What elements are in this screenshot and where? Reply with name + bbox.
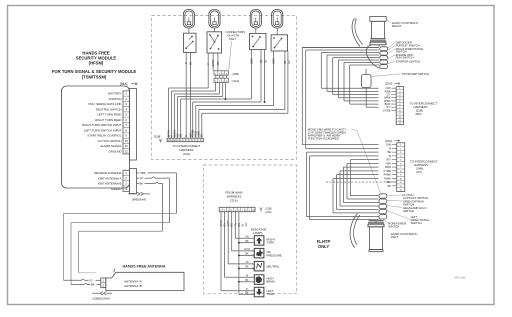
svg-text:BATTERY: BATTERY bbox=[108, 92, 121, 96]
far left tall wires bbox=[302, 47, 378, 49]
right housing bbox=[366, 45, 379, 68]
wire box2 w1 bbox=[207, 53, 209, 88]
svg-text:SWITCH: SWITCH bbox=[411, 221, 422, 225]
svg-text:[21A]: [21A] bbox=[230, 199, 237, 203]
junction bbox=[224, 98, 226, 100]
svg-text:ALARM SIGNAL: ALARM SIGNAL bbox=[100, 144, 122, 148]
clutch lever bbox=[350, 214, 357, 248]
svg-text:O/BE: O/BE bbox=[250, 58, 253, 64]
lamp bulb front right turn bbox=[272, 10, 283, 29]
svg-text:[21A]: [21A] bbox=[266, 211, 272, 214]
svg-text:GY: GY bbox=[288, 60, 291, 64]
wire box3 w1 bbox=[250, 50, 252, 99]
wire BE direct to pin5 bbox=[190, 52, 192, 138]
wire Y/BK receive antenna bbox=[137, 172, 140, 174]
wire GY xmit antenna A bbox=[137, 177, 140, 179]
wire box4 w1 bbox=[273, 51, 275, 106]
FLTR 4-pin connector strip A bbox=[214, 78, 228, 82]
svg-text:BE: BE bbox=[181, 133, 183, 137]
svg-text:RIGHT TURN FEED: RIGHT TURN FEED bbox=[95, 118, 121, 122]
svg-text:ONLY: ONLY bbox=[318, 244, 329, 249]
svg-text:↓ [31B]: ↓ [31B] bbox=[231, 72, 240, 76]
svg-text:BE: BE bbox=[190, 61, 193, 65]
svg-text:RIGHT TURN SWITCH INPUT: RIGHT TURN SWITCH INPUT bbox=[82, 123, 122, 127]
lamp socket 4 bbox=[271, 35, 287, 51]
svg-text:START RELAY CONTROL: START RELAY CONTROL bbox=[87, 134, 121, 138]
svg-text:BK: BK bbox=[245, 254, 249, 256]
antenna wire routing loop bbox=[64, 213, 177, 215]
svg-text:0457 wdb: 0457 wdb bbox=[454, 276, 466, 280]
dashed alt wire bbox=[326, 181, 397, 183]
svg-text:BE/GY: BE/GY bbox=[169, 129, 171, 136]
svg-text:O/W: O/W bbox=[386, 144, 392, 147]
svg-text:Y/BK: Y/BK bbox=[385, 162, 391, 165]
svg-text:LEFT TURN SWITCH INPUT: LEFT TURN SWITCH INPUT bbox=[84, 128, 122, 132]
connector 22A 12-pin bbox=[396, 87, 403, 125]
svg-text:TN/BK: TN/BK bbox=[384, 177, 392, 180]
svg-text:BK: BK bbox=[245, 293, 249, 295]
svg-text:GY/O: GY/O bbox=[244, 249, 250, 251]
wire V direct to pin6 bbox=[185, 52, 187, 138]
svg-text:PK/BK: PK/BK bbox=[384, 174, 392, 177]
mate symbol bbox=[160, 140, 162, 143]
svg-text:GY/BE: GY/BE bbox=[212, 59, 215, 67]
icon neutral bbox=[257, 263, 262, 268]
HFSM module box bbox=[62, 86, 130, 188]
indicator wiring verticals bbox=[220, 212, 222, 291]
svg-text:GY: GY bbox=[89, 278, 93, 282]
shield wire faded bbox=[79, 272, 97, 274]
svg-text:W/Y: W/Y bbox=[386, 159, 391, 162]
svg-text:ANTENNA 'A': ANTENNA 'A' bbox=[124, 279, 143, 283]
svg-text:V/BN: V/BN bbox=[199, 131, 201, 137]
svg-text:SHIELD: SHIELD bbox=[111, 187, 121, 191]
svg-text:TURN: TURN bbox=[267, 292, 275, 296]
left callout leaders bbox=[387, 194, 402, 197]
svg-text:GROUND: GROUND bbox=[109, 149, 122, 153]
svg-text:O: O bbox=[186, 135, 188, 137]
left control pods bbox=[379, 194, 387, 198]
strip link bbox=[215, 75, 217, 78]
icon high beam bbox=[256, 276, 262, 283]
svg-text:XMIT ANTENNA B: XMIT ANTENNA B bbox=[98, 182, 122, 186]
svg-text:ANTENNA 'B': ANTENNA 'B' bbox=[124, 284, 143, 288]
svg-text:NEUTRAL: NEUTRAL bbox=[267, 265, 280, 269]
brake lever bbox=[352, 19, 360, 47]
lamp bulb front right turn FLTR bbox=[250, 10, 261, 29]
svg-text:BK: BK bbox=[265, 59, 268, 63]
svg-text:[64A]: [64A] bbox=[120, 82, 128, 86]
svg-text:BE: BE bbox=[284, 60, 287, 64]
indicator lamp HIGH BEAM bbox=[254, 275, 264, 285]
icon right turn arrow bbox=[256, 237, 262, 244]
HFSM 12-pin connector strip bbox=[123, 91, 130, 154]
svg-text:TURN: TURN bbox=[267, 241, 275, 245]
svg-text:LEFT: LEFT bbox=[391, 235, 399, 239]
ground bus vertical bbox=[238, 212, 240, 295]
svg-text:[209B] [209A]: [209B] [209A] bbox=[93, 297, 110, 301]
svg-text:GY/BN: GY/BN bbox=[193, 129, 195, 136]
svg-text:PRESSURE: PRESSURE bbox=[267, 253, 283, 257]
svg-text:BK: BK bbox=[202, 133, 204, 137]
svg-text:[24A]: [24A] bbox=[385, 139, 392, 143]
antenna 2-pin connector bbox=[101, 278, 106, 288]
svg-text:(GY): (GY) bbox=[416, 170, 422, 174]
svg-text:BK: BK bbox=[245, 267, 249, 269]
wire box4 w2 bbox=[284, 51, 286, 110]
svg-text:GN: GN bbox=[244, 222, 248, 226]
connector 24A 13-pin bbox=[397, 143, 405, 192]
stoplamp switch bbox=[362, 75, 372, 88]
note callout bbox=[352, 129, 381, 193]
svg-text:(BN): (BN) bbox=[416, 112, 422, 116]
wire BK to antenna bbox=[71, 284, 84, 286]
wire box3 w3 bbox=[264, 50, 266, 102]
svg-text:BK: BK bbox=[140, 181, 144, 185]
svg-text:FUNCTION IS DESIRED: FUNCTION IS DESIRED bbox=[308, 137, 339, 141]
svg-text:STOPLAMP SWITCH: STOPLAMP SWITCH bbox=[402, 72, 429, 76]
FLTR 4-pin connector strip B bbox=[214, 71, 228, 75]
pins 3,4 wires to horn bbox=[307, 151, 379, 153]
svg-text:CLUTCH SWITCH: CLUTCH SWITCH bbox=[98, 139, 122, 143]
hand controls right: grip bbox=[370, 17, 386, 22]
svg-text:ONLY: ONLY bbox=[229, 37, 237, 41]
left grip bbox=[369, 220, 384, 222]
indicator lamp OIL PRESSURE bbox=[254, 248, 264, 258]
svg-text:BK: BK bbox=[245, 241, 249, 243]
icon left turn arrow bbox=[256, 289, 262, 296]
wire box4 w3 bbox=[287, 51, 289, 113]
svg-text:GY: GY bbox=[140, 176, 144, 180]
svg-text:TN: TN bbox=[245, 262, 248, 264]
svg-text:BK: BK bbox=[388, 185, 392, 188]
lamp socket 1 bbox=[184, 33, 197, 52]
dashed boundary bottom-center box bbox=[203, 165, 296, 294]
svg-text:[22A]: [22A] bbox=[385, 82, 392, 86]
open terminals bbox=[252, 250, 254, 252]
svg-text:BN/GY: BN/GY bbox=[175, 129, 177, 137]
svg-text:LEFT TURN FEED: LEFT TURN FEED bbox=[97, 113, 121, 117]
icon oil pressure bbox=[256, 249, 263, 256]
right switch pods bbox=[380, 47, 388, 51]
svg-text:[31B]: [31B] bbox=[154, 135, 161, 139]
connector symbol [209B][209A] bbox=[92, 292, 100, 294]
lamp to socket stems bbox=[188, 28, 190, 33]
svg-text:XMIT ANTENNA A: XMIT ANTENNA A bbox=[98, 176, 122, 180]
right control wire bundle bbox=[302, 47, 379, 49]
svg-text:VSS / SERIAL DATA LINK: VSS / SERIAL DATA LINK bbox=[88, 102, 122, 106]
svg-text:BE: BE bbox=[260, 59, 263, 63]
svg-text:O/GN: O/GN bbox=[196, 131, 198, 137]
svg-text:R: R bbox=[389, 147, 391, 150]
svg-text:(HFSM): (HFSM) bbox=[89, 61, 104, 66]
svg-text:Y/BK: Y/BK bbox=[140, 171, 146, 175]
wire box3 w2 bbox=[260, 50, 262, 102]
svg-text:BE: BE bbox=[217, 61, 220, 65]
svg-text:SWITCH: SWITCH bbox=[388, 225, 399, 229]
TO INTERCONNECT HARNESS 12-pin connector bbox=[167, 138, 203, 142]
callout leaders right pods bbox=[388, 42, 395, 48]
strip A output wires bbox=[215, 83, 217, 91]
lamp socket 3 bbox=[250, 33, 267, 49]
wire GY to antenna bbox=[64, 279, 82, 281]
svg-text:↑ [31A]: ↑ [31A] bbox=[231, 79, 240, 83]
connector symbol [64B][64A] bbox=[128, 193, 137, 195]
svg-text:BE: BE bbox=[388, 151, 392, 154]
indicator lamp LEFT TURN bbox=[254, 287, 264, 297]
svg-text:BK/R: BK/R bbox=[385, 166, 391, 169]
indicator lamp NEUTRAL bbox=[254, 261, 264, 271]
svg-text:LAMPS: LAMPS bbox=[253, 231, 263, 235]
svg-text:[64B] [64A]: [64B] [64A] bbox=[132, 197, 146, 201]
lamp bulb front left turn bbox=[183, 10, 194, 29]
svg-text:GY/BE: GY/BE bbox=[383, 109, 391, 112]
svg-text:RECEIVE ANTENNA: RECEIVE ANTENNA bbox=[94, 171, 121, 175]
svg-text:FOR TURN SIGNAL & SECURITY MOD: FOR TURN SIGNAL & SECURITY MODULE bbox=[52, 69, 137, 74]
wire BK xmit antenna B bbox=[137, 182, 140, 184]
svg-text:SWITCH: SWITCH bbox=[403, 209, 414, 213]
10-pin main harness connector bbox=[219, 207, 255, 211]
svg-text:GY/BE: GY/BE bbox=[383, 170, 391, 173]
svg-text:Y/BK: Y/BK bbox=[385, 181, 391, 184]
svg-text:GY: GY bbox=[178, 133, 180, 137]
svg-text:STARTER SWITCH: STARTER SWITCH bbox=[396, 60, 421, 64]
indicator lamp RIGHT TURN bbox=[254, 236, 264, 246]
HFSM 4-pin antenna connector strip bbox=[123, 170, 130, 191]
lamp bulb front left turn FLTR bbox=[209, 10, 220, 29]
svg-text:BK: BK bbox=[91, 283, 95, 287]
svg-text:IGNITION: IGNITION bbox=[109, 97, 122, 101]
svg-text:(TSM/TSSM): (TSM/TSSM) bbox=[82, 75, 107, 80]
svg-text:HANDS FREE ANTENNA: HANDS FREE ANTENNA bbox=[123, 264, 166, 268]
svg-text:[31A]: [31A] bbox=[183, 152, 190, 156]
svg-text:RIGHT: RIGHT bbox=[392, 24, 402, 28]
svg-text:V/BE: V/BE bbox=[273, 58, 276, 64]
dashed boundary top-center box bbox=[152, 16, 297, 160]
lamp socket 2 bbox=[207, 32, 222, 53]
stoplamp wire bbox=[365, 88, 367, 108]
mate symbol Y bbox=[260, 208, 263, 210]
svg-text:12: 12 bbox=[125, 149, 129, 153]
svg-text:NEUTRAL SWITCH: NEUTRAL SWITCH bbox=[96, 107, 122, 111]
svg-text:BK: BK bbox=[245, 280, 249, 282]
callout line bbox=[229, 41, 232, 71]
left control wires bbox=[351, 195, 379, 197]
hands free antenna box bbox=[106, 272, 184, 290]
svg-text:GN: GN bbox=[245, 237, 249, 239]
svg-text:10: 10 bbox=[125, 139, 129, 143]
svg-text:BEAM: BEAM bbox=[267, 280, 276, 284]
svg-text:11: 11 bbox=[125, 144, 128, 148]
wire bus nested lines bbox=[168, 88, 170, 138]
